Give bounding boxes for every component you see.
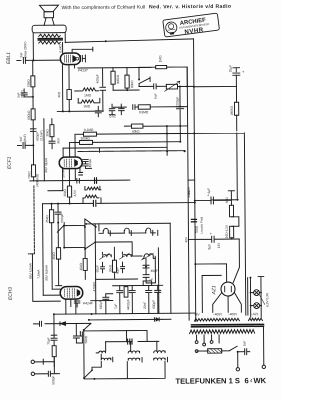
svg-text:6,6kΩ: 6,6kΩ [58, 44, 62, 53]
svg-text:30kΩ: 30kΩ [109, 264, 113, 272]
svg-text:300kΩ: 300kΩ [80, 136, 90, 140]
capacitor 25uF electrolytic [228, 65, 245, 87]
tube AZ1 [211, 282, 235, 296]
resistor 600k left chain [27, 96, 36, 145]
svg-text:300kΩ: 300kΩ [116, 74, 120, 84]
mains taps [195, 335, 219, 346]
compliments text [61, 4, 231, 11]
svg-text:60kΩ: 60kΩ [130, 80, 134, 88]
svg-text:P413T: P413T [78, 68, 89, 72]
capacitor dark y180 [95, 178, 97, 184]
verticals to y280 [158, 223, 171, 313]
svg-text:70kΩ: 70kΩ [27, 171, 31, 179]
wires EBL1 cathode block [62, 65, 69, 112]
capacitor 200pF shunt [175, 86, 183, 141]
svg-text:30Ω: 30Ω [225, 197, 229, 204]
switch S1a [139, 77, 150, 87]
wire y330.5 [84, 329, 147, 331]
svg-text:4400pF: 4400pF [126, 299, 130, 310]
svg-text:25kΩ: 25kΩ [45, 215, 49, 223]
resistor 4k [57, 90, 71, 100]
wire around 1M [139, 67, 187, 87]
coils bottom row1 [96, 341, 165, 353]
resistor 70k [27, 144, 39, 187]
svg-text:1MΩ: 1MΩ [84, 93, 91, 97]
wire y133.8 long bus [75, 133, 246, 317]
wire bottom bus y378.5 [84, 361, 165, 379]
resistor 40k osc [52, 248, 62, 286]
svg-text:44V 41mA: 44V 41mA [44, 157, 48, 173]
svg-text:(40k5kΩ): (40k5kΩ) [35, 174, 39, 187]
resistor 0,1M bus [83, 128, 96, 136]
diode detector [154, 318, 162, 321]
resistor 0,5M [138, 104, 187, 114]
resistor 1M top right [156, 55, 167, 69]
label EBL1 [6, 52, 12, 64]
zigzag resistor 1M upper [75, 88, 99, 98]
switch wiper osc [83, 369, 93, 379]
wire x53 to coils [43, 357, 54, 367]
capacitor 3nF(8nF) #2 [17, 134, 33, 148]
svg-text:20nF: 20nF [143, 302, 147, 309]
wire y313.5 long [54, 313, 196, 314]
wire y279 [96, 278, 138, 280]
power box jog [188, 179, 195, 181]
capacitor pair mid [109, 104, 124, 115]
capacitor 5nF speaker [17, 42, 34, 64]
coil osc 2 [115, 252, 131, 274]
switch wiper det [83, 323, 92, 378]
capacitor series thick y203 [93, 200, 95, 206]
capacitor dark 341 [128, 339, 132, 344]
vertical x42.5 [42, 204, 45, 295]
band switch row A wiper [57, 218, 170, 249]
svg-text:~400V: ~400V [228, 312, 238, 316]
mains plug terminals [237, 326, 263, 368]
wire line y67.5 [75, 64, 152, 87]
resistor 300k bus [79, 136, 92, 144]
svg-text:50kΩ: 50kΩ [27, 79, 31, 87]
potentiometer 200pF [165, 81, 195, 91]
dotted AVC line [78, 150, 185, 153]
junction [105, 40, 107, 42]
resistor 10k left chain [26, 60, 35, 96]
label P413T [78, 68, 89, 72]
mains transformer TR2 [189, 318, 263, 334]
coil taps row A [99, 228, 158, 236]
svg-text:AZ1: AZ1 [211, 285, 217, 295]
svg-text:500pF: 500pF [51, 376, 55, 385]
capacitor leuchtfeld [184, 217, 204, 243]
wires into ECH3 [32, 254, 60, 302]
svg-text:~AZ1: ~AZ1 [251, 312, 259, 316]
label ECH3 [8, 287, 14, 300]
T terminal 30ohm [228, 191, 234, 206]
svg-text:400pF: 400pF [96, 74, 100, 83]
left AVC vertical [28, 186, 35, 254]
wires ECF1 top pins [63, 134, 75, 157]
bottom brand text [175, 376, 266, 386]
svg-text:EBL1: EBL1 [6, 52, 12, 64]
svg-text:WK: WK [253, 376, 266, 385]
output transformer TR1 [32, 25, 66, 60]
wire 240V [187, 189, 191, 197]
resistor arrow left on y126 [124, 124, 143, 134]
coil osc 1 [95, 252, 111, 273]
wire x237 [213, 133, 237, 200]
svg-text:(8nF): (8nF) [23, 134, 27, 142]
bus vertical x195 [194, 39, 196, 322]
resistor 280k [230, 86, 239, 130]
terminal E [31, 371, 59, 385]
pilot lamp 2 [250, 292, 270, 308]
pilot lamp 1 [250, 290, 262, 296]
svg-text:Leucht Feld: Leucht Feld [200, 217, 204, 234]
svg-text:0,1MΩ: 0,1MΩ [84, 128, 94, 132]
wire grid cap EBL1 [72, 47, 93, 53]
wire 44V line [44, 119, 48, 181]
wire anode up [62, 42, 64, 53]
svg-text:13V: 13V [217, 242, 221, 249]
svg-text:200pF: 200pF [175, 97, 179, 106]
diode AM det [60, 322, 66, 326]
svg-text:Δ 52: Δ 52 [109, 114, 116, 118]
resistor 16ohm [225, 217, 239, 239]
loudspeaker LS [39, 5, 58, 25]
svg-text:45mA: 45mA [88, 158, 92, 167]
svg-text:40pF: 40pF [151, 269, 158, 273]
capacitor cathode dark [79, 172, 83, 175]
svg-text:4kΩ: 4kΩ [57, 91, 61, 97]
wire anode right AZ1 [233, 239, 240, 283]
svg-text:86V 4,5mA: 86V 4,5mA [28, 262, 32, 279]
wire y126 [143, 125, 188, 127]
svg-text:10kΩ: 10kΩ [79, 262, 83, 270]
svg-text:1MΩ: 1MΩ [158, 55, 162, 62]
tube EBL1 envelope [60, 53, 80, 65]
svg-text:500Ω: 500Ω [84, 335, 88, 343]
svg-text:240V: 240V [187, 186, 191, 194]
svg-text:ECF1: ECF1 [7, 156, 13, 169]
capacitor pair detector filter [73, 323, 82, 343]
svg-text:(8nF): (8nF) [20, 90, 24, 98]
capacitor plate EBL1 [80, 55, 85, 62]
capacitor 5nF mains [243, 341, 250, 355]
terminal A [31, 359, 43, 364]
band switch row B wiper [63, 225, 142, 257]
tube ECF1 envelope [59, 157, 82, 169]
resistor 30k sw2 [108, 247, 116, 278]
ECH3 pins down [66, 299, 76, 314]
capacitor 500pF [55, 204, 64, 248]
capacitor 400pF series [96, 74, 106, 111]
capacitors at ECF1 right [83, 158, 93, 168]
vertical x167.5 [166, 126, 168, 155]
svg-text:1MΩ: 1MΩ [83, 104, 90, 108]
svg-text:600pF: 600pF [152, 300, 156, 309]
svg-text:25µF: 25µF [228, 65, 232, 72]
tube ECH3 envelope [60, 286, 83, 299]
wire y110.8 cathode bus [57, 110, 103, 112]
capacitor Delta52 [95, 106, 116, 118]
svg-text:500pF: 500pF [60, 214, 64, 223]
resistor 10k sw [79, 249, 87, 280]
svg-text:95V: 95V [57, 137, 61, 144]
svg-text:6,3V 0,3A: 6,3V 0,3A [265, 292, 269, 307]
svg-text:(max 20nF): (max 20nF) [23, 42, 27, 58]
capacitor at 40,323 [33, 321, 41, 326]
wires ECF1 pins [63, 168, 81, 190]
AZ1 anode wires [195, 264, 241, 313]
svg-text:6: 6 [244, 376, 248, 385]
voltage selector [195, 346, 244, 353]
wire switch drop [138, 67, 140, 79]
wire y239.8 with 8uF series [188, 232, 239, 250]
resistor 60k [125, 68, 134, 91]
wire long y203 [43, 200, 239, 204]
svg-text:90V 8,6mA: 90V 8,6mA [45, 264, 49, 281]
svg-text:Ned. Ver. v. Historie v/d Radi: Ned. Ver. v. Historie v/d Radio [149, 4, 231, 11]
svg-text:TELEFUNKEN 1 S: TELEFUNKEN 1 S [175, 376, 240, 386]
wire y341 [106, 340, 159, 342]
svg-text:60kΩ: 60kΩ [132, 130, 140, 134]
svg-text:30kΩ: 30kΩ [63, 188, 67, 196]
coil osc 3 [141, 253, 158, 283]
label P414F [83, 301, 94, 305]
svg-text:0,5MΩ: 0,5MΩ [139, 110, 149, 114]
svg-text:+: + [210, 232, 213, 236]
svg-text:700Ω: 700Ω [195, 225, 199, 233]
heater wires top right [248, 277, 264, 318]
wire x95 vertical [94, 224, 97, 314]
svg-text:~400V: ~400V [213, 312, 223, 316]
wire y190 stub [48, 190, 63, 192]
svg-text:16Ω 4,1V: 16Ω 4,1V [225, 224, 229, 238]
svg-text:NVHR: NVHR [184, 26, 204, 35]
winding labels [194, 312, 259, 317]
svg-text:6µF: 6µF [207, 188, 211, 194]
svg-text:40V: 40V [184, 236, 188, 243]
capacitor grid ECH3 [74, 301, 80, 307]
zigzag resistor 1M lower [78, 98, 100, 108]
wire y142 [70, 141, 181, 144]
resistor 25k [45, 204, 54, 290]
svg-text:4,5V: 4,5V [73, 189, 77, 196]
wire: top long line to right bus [65, 39, 193, 43]
capacitor 3nF(8nF) [17, 89, 33, 98]
wire y180 [30, 179, 130, 182]
svg-text:(2,5nF): (2,5nF) [39, 130, 43, 140]
resistor 300k [111, 68, 120, 91]
wire net B y107 [113, 105, 138, 110]
wire y323 detector [45, 322, 91, 324]
wire y147.5 [63, 146, 167, 149]
svg-text:30kΩ: 30kΩ [45, 129, 49, 137]
wire y87 right [194, 85, 236, 87]
svg-text:P414F: P414F [83, 301, 94, 305]
label ECF1 [7, 156, 13, 169]
resistor 30k mid [45, 119, 60, 149]
svg-text:600kΩ: 600kΩ [27, 110, 31, 120]
svg-text:280kΩ: 280kΩ [230, 105, 234, 115]
capacitor 600pF(2,5nF) [30, 129, 43, 141]
svg-text:5nF: 5nF [154, 93, 158, 99]
svg-text:7µF: 7µF [114, 304, 118, 310]
wire y319.5 [89, 318, 171, 321]
capacitor 8uF #1 [187, 186, 231, 204]
svg-text:With the compliments of Eckhar: With the compliments of Eckhard Kull [61, 4, 145, 11]
capacitor tick y180 [77, 178, 80, 183]
svg-text:70pF: 70pF [47, 337, 51, 344]
zigzag coil 0,1M [85, 186, 101, 190]
zigzag coil 100 [83, 195, 101, 203]
wire grid line y59 [33, 59, 59, 61]
coils bottom row2 [101, 354, 167, 363]
wire y90 [113, 89, 139, 91]
capacitor 5nF series [139, 84, 166, 99]
svg-text:40kΩ: 40kΩ [52, 252, 56, 260]
bus vertical x188 [187, 67, 189, 320]
svg-text:50pF: 50pF [96, 265, 100, 272]
svg-text:8µF: 8µF [207, 244, 211, 250]
labels voltages left [28, 262, 48, 281]
resistor 30k cathode [63, 186, 77, 204]
capacitor 50pF chain [46, 314, 57, 374]
resistor 30ohm [225, 197, 234, 217]
NVHR stamp [163, 13, 220, 38]
verticals into y330 [127, 330, 148, 341]
svg-text:20mA: 20mA [61, 168, 65, 177]
oscillator padder caps row [91, 281, 163, 314]
svg-text:ECH3: ECH3 [8, 287, 14, 300]
svg-text:5nF: 5nF [243, 341, 247, 347]
svg-text:~4V: ~4V [194, 313, 201, 317]
svg-text:610pF: 610pF [99, 300, 103, 309]
svg-text:7,5mA: 7,5mA [37, 269, 41, 279]
svg-text:+: + [242, 69, 245, 74]
